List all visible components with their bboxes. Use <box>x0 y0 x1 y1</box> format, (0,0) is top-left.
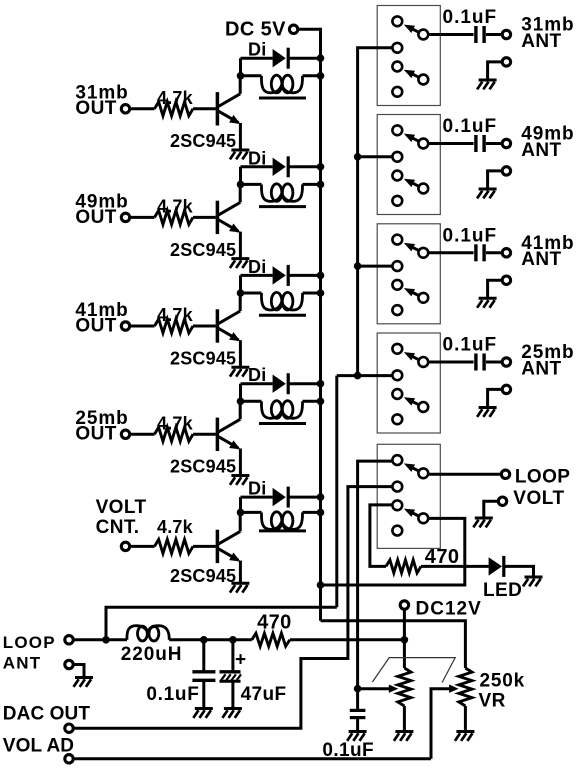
wire collector node to diode stage 4 <box>241 384 273 402</box>
relay coil RY3 <box>241 292 321 315</box>
svg-text:Di: Di <box>248 40 266 60</box>
relay coil RY4 <box>241 401 321 424</box>
terminal VOLT <box>498 497 506 505</box>
label 41mb ANT <box>521 233 574 270</box>
terminal DC5V <box>289 25 297 33</box>
resistor 470 (LED) <box>386 546 459 573</box>
wire rail to RY2 c3 <box>358 155 393 158</box>
node collector stage 5 <box>237 509 245 517</box>
svg-text:2SC945: 2SC945 <box>170 348 236 368</box>
junction coil-rail stage 5 <box>317 509 325 517</box>
label VOL AD <box>3 735 74 756</box>
relay RY4 contact circles <box>392 344 428 424</box>
wire collector node to diode stage 2 <box>241 167 273 185</box>
node collector stage 3 <box>237 289 245 297</box>
wire VR1 wiper arrow <box>358 685 399 693</box>
wire RY4 c3 jog <box>337 374 393 377</box>
wire DC12V down to VR1 <box>403 609 406 668</box>
svg-text:250k: 250k <box>480 670 525 691</box>
terminal LOOP ANT <box>65 636 73 644</box>
junction coil-rail stage 2 <box>317 181 325 189</box>
svg-text:2SC945: 2SC945 <box>170 131 236 151</box>
wire resistor to base Q5 <box>193 545 216 548</box>
svg-text:4.7k: 4.7k <box>157 305 194 325</box>
wire RY3 c2 to capacitor <box>428 251 474 254</box>
svg-text:LED: LED <box>483 580 522 601</box>
svg-text:OUT: OUT <box>75 207 116 228</box>
wire resistor 470 to DC12V node <box>290 638 405 641</box>
svg-text:ANT: ANT <box>521 140 561 161</box>
wire RY5 c4 to resistor 470 <box>370 505 393 567</box>
svg-text:+: + <box>235 649 247 670</box>
svg-text:4.7k: 4.7k <box>157 196 194 216</box>
wire capacitor to 49mb ANT terminal <box>486 142 502 145</box>
capacitor 0.1uF (loop filter) <box>146 640 215 708</box>
potentiometer VR2 250k <box>459 668 472 731</box>
svg-text:OUT: OUT <box>75 98 116 119</box>
wire commons down to loop line <box>335 376 338 608</box>
relay RY5 contact circles <box>392 455 428 535</box>
diode Di2 <box>248 148 288 177</box>
terminal 31mb ANT <box>502 30 510 38</box>
terminal ANT ground 2 <box>502 167 510 175</box>
wire diode to rail stage 3 <box>287 274 321 277</box>
junction commons RY2 <box>354 153 362 161</box>
svg-text:OUT: OUT <box>75 315 116 336</box>
node collector stage 1 <box>237 72 245 80</box>
svg-text:LOOP: LOOP <box>515 467 570 488</box>
ground ANT 1 <box>477 80 497 89</box>
relay contact box RY2 <box>377 115 440 215</box>
svg-text:0.1uF: 0.1uF <box>443 7 498 28</box>
ground ANT 2 <box>477 189 497 198</box>
terminal input stage 4 <box>121 430 129 438</box>
diode Di1 <box>248 40 288 69</box>
wire loop riser to commons <box>106 607 337 640</box>
wire VOL AD line <box>73 757 431 760</box>
svg-text:OUT: OUT <box>75 424 116 445</box>
transistor Q5 2SC945 <box>170 512 240 586</box>
label VOLT CNT. (stage 5 input) <box>96 497 147 538</box>
terminal DAC OUT <box>65 724 73 732</box>
relay coil RY1 <box>241 75 321 98</box>
junction diode-rail stage 5 <box>317 493 325 501</box>
junction commons RY3 <box>354 262 362 270</box>
junction diode-rail stage 3 <box>317 272 325 280</box>
junction loop riser <box>102 636 110 644</box>
transistor Q4 2SC945 <box>170 401 240 476</box>
transistor Q3 2SC945 <box>170 293 240 368</box>
ground ANT 4 <box>477 408 497 417</box>
wire DC5V rail vertical <box>319 28 322 621</box>
relay RY1 contact circles <box>392 16 428 96</box>
ground VOLT <box>473 518 493 527</box>
relay contact box RY3 <box>377 224 440 324</box>
wire RY5 c5 to rail <box>321 518 465 585</box>
junction commons RY4 <box>354 372 362 380</box>
relay contact box RY5 <box>377 444 440 548</box>
wire input to resistor stage 5 <box>130 545 155 548</box>
svg-text:Di: Di <box>248 479 266 499</box>
capacitor 0.1uF C2 <box>443 116 498 152</box>
junction c5-rail <box>317 581 325 589</box>
wire capacitor to 41mb ANT terminal <box>486 251 502 254</box>
LED D6 <box>483 556 522 601</box>
ground 47uF <box>222 709 242 718</box>
node collector stage 4 <box>237 398 245 406</box>
wire diode to rail stage 2 <box>287 165 321 168</box>
junction diode-rail stage 2 <box>317 163 325 171</box>
relay coil RY5 <box>241 512 321 531</box>
ground VR1 <box>394 732 414 741</box>
resistor 4.7k R2 <box>155 196 194 224</box>
junction coil-rail stage 3 <box>317 289 325 297</box>
ground LED <box>523 577 543 586</box>
wire ANT ground terminal 4 <box>488 389 503 407</box>
wire RY5 c1 to wiper line <box>358 461 393 689</box>
ground ANT left <box>74 678 94 687</box>
wire DC5V to rail <box>298 28 321 31</box>
label 25mb OUT (stage 4 input) <box>75 408 128 445</box>
diode Di5 <box>248 479 288 508</box>
relay contact box RY1 <box>377 6 440 106</box>
ground emitter Q3 <box>230 367 250 376</box>
svg-text:DC 5V: DC 5V <box>225 19 286 41</box>
wire input to resistor stage 1 <box>130 107 155 110</box>
wire collector node to diode stage 3 <box>241 275 273 293</box>
wire VOLT terminal to ground <box>484 501 499 518</box>
terminal LOOP <box>501 470 509 478</box>
label VOLT <box>513 488 564 509</box>
junction wiper/cap node <box>354 685 362 693</box>
transistor Q1 2SC945 <box>170 76 240 151</box>
relay coil RY2 <box>241 184 321 207</box>
wire resistor to base Q1 <box>193 107 216 110</box>
svg-text:Di: Di <box>248 257 266 277</box>
svg-text:0.1uF: 0.1uF <box>443 225 498 246</box>
wire RY2 c2 to capacitor <box>428 142 474 145</box>
capacitor 47uF electrolytic <box>220 640 287 708</box>
resistor 4.7k R3 <box>155 305 194 333</box>
terminal VOL AD <box>65 755 73 763</box>
inductor 220uH <box>121 626 183 665</box>
node collector stage 2 <box>237 181 245 189</box>
terminal ANT ground 4 <box>502 385 510 393</box>
svg-text:DAC OUT: DAC OUT <box>3 704 91 725</box>
capacitor 0.1uF C4 <box>443 335 498 371</box>
wire input to resistor stage 2 <box>130 216 155 219</box>
wire ANT ground terminal 1 <box>488 62 503 80</box>
label 49mb OUT (stage 2 input) <box>75 191 128 228</box>
svg-text:DC12V: DC12V <box>416 599 482 620</box>
wire resistor to base Q3 <box>193 325 216 328</box>
label LOOP <box>515 467 570 488</box>
wire LOOP terminal to inductor <box>73 638 127 641</box>
potentiometer VR1 <box>398 668 411 731</box>
ground emitter Q4 <box>230 476 250 485</box>
terminal 41mb ANT <box>502 249 510 257</box>
relay RY3 moving contact arrows <box>404 243 418 297</box>
ground 0.1uF wiper <box>347 732 367 741</box>
terminal ANT ground 3 <box>502 276 510 284</box>
wire input to resistor stage 3 <box>130 325 155 328</box>
label DC12V <box>416 599 482 620</box>
svg-text:CNT.: CNT. <box>96 517 140 538</box>
junction 0.1uF tap <box>200 636 208 644</box>
junction coil-rail stage 4 <box>317 398 325 406</box>
terminal ANT ground 1 <box>502 58 510 66</box>
svg-text:47uF: 47uF <box>241 684 287 705</box>
resistor 470 (loop) <box>252 612 292 647</box>
label DAC OUT <box>3 704 91 725</box>
terminal 49mb ANT <box>502 139 510 147</box>
terminal input stage 5 <box>121 542 129 550</box>
gang link VR1-VR2 <box>372 658 455 683</box>
svg-text:0.1uF: 0.1uF <box>443 116 498 137</box>
junction DC12V node <box>401 636 409 644</box>
wire capacitor to 31mb ANT terminal <box>486 33 502 36</box>
svg-text:ANT: ANT <box>521 358 561 379</box>
label LOOP ANT <box>3 633 56 672</box>
diode Di4 <box>248 365 288 394</box>
ground emitter Q2 <box>230 259 250 268</box>
svg-text:ANT: ANT <box>521 31 561 52</box>
svg-text:0.1uF: 0.1uF <box>443 335 498 356</box>
ground ANT 3 <box>477 298 497 307</box>
svg-text:Di: Di <box>248 365 266 385</box>
relay RY5 moving contact arrows <box>404 463 418 517</box>
label 31mb OUT (stage 1 input) <box>75 83 128 120</box>
capacitor 0.1uF C1 <box>443 7 498 43</box>
wire diode to rail stage 1 <box>287 57 321 60</box>
svg-text:VOL AD: VOL AD <box>3 735 74 756</box>
wire RY5 c2 to LOOP terminal <box>428 473 502 476</box>
svg-text:VOLT: VOLT <box>513 488 564 509</box>
svg-text:VR: VR <box>479 690 506 711</box>
svg-text:0.1uF: 0.1uF <box>146 684 199 705</box>
ground emitter Q5 <box>230 583 250 592</box>
svg-text:2SC945: 2SC945 <box>170 566 236 586</box>
svg-text:4.7k: 4.7k <box>157 413 194 433</box>
svg-text:ANT: ANT <box>521 249 561 270</box>
relay RY2 moving contact arrows <box>404 134 418 188</box>
transistor Q2 2SC945 <box>170 184 240 259</box>
terminal input stage 1 <box>121 105 129 113</box>
ground VR2 <box>455 732 475 741</box>
wire capacitor to 25mb ANT terminal <box>486 361 502 364</box>
resistor 4.7k R5 <box>155 517 194 553</box>
svg-text:ANT: ANT <box>3 654 42 673</box>
label 250k VR <box>479 670 525 711</box>
terminal input stage 3 <box>121 322 129 330</box>
wire diode to rail stage 4 <box>287 382 321 385</box>
label 25mb ANT <box>521 342 574 379</box>
wire RY1 c2 to capacitor <box>428 33 474 36</box>
terminal ANT ground (left) <box>65 660 73 668</box>
wire resistor to LED <box>421 565 489 568</box>
label 31mb ANT <box>521 15 574 52</box>
wire LED to ground <box>504 566 534 577</box>
wire resistor to base Q4 <box>193 433 216 436</box>
junction 47uF tap <box>229 636 237 644</box>
wire input to resistor stage 4 <box>130 433 155 436</box>
wire ANT terminal to ground <box>73 665 84 678</box>
junction diode-rail stage 4 <box>317 380 325 388</box>
relay RY4 moving contact arrows <box>404 352 418 406</box>
ground emitter Q1 <box>230 150 250 159</box>
wire rail to 250k VR top <box>321 621 466 668</box>
svg-text:LOOP: LOOP <box>3 633 56 652</box>
relay RY1 moving contact arrows <box>404 25 418 79</box>
ground 0.1uF loop <box>193 709 213 718</box>
relay contact box RY4 <box>377 333 440 433</box>
junction diode-rail stage 1 <box>317 54 325 62</box>
relay RY3 contact circles <box>392 235 428 315</box>
wire VOL AD riser to VR2 wiper <box>431 685 459 759</box>
wire collector node to diode stage 5 <box>241 497 273 512</box>
wire RY4 c2 to capacitor <box>428 361 474 364</box>
wire rail to RY3 c3 <box>358 265 393 268</box>
svg-text:470: 470 <box>425 546 460 568</box>
label DC 5V <box>225 19 286 41</box>
wire relay commons rail <box>358 48 393 376</box>
svg-text:2SC945: 2SC945 <box>170 457 236 477</box>
terminal input stage 2 <box>121 213 129 221</box>
svg-text:4.7k: 4.7k <box>157 88 194 108</box>
wire resistor to base Q2 <box>193 216 216 219</box>
resistor 4.7k R4 <box>155 413 194 441</box>
diode Di3 <box>248 257 288 286</box>
svg-text:470: 470 <box>257 612 292 634</box>
junction coil-rail stage 1 <box>317 72 325 80</box>
label 41mb OUT (stage 3 input) <box>75 300 128 337</box>
svg-text:2SC945: 2SC945 <box>170 240 236 260</box>
capacitor 0.1uF C3 <box>443 225 498 261</box>
wire inductor to resistor 470 <box>169 638 252 641</box>
resistor 4.7k R1 <box>155 88 194 116</box>
relay RY2 contact circles <box>392 125 428 205</box>
wire diode to rail stage 5 <box>287 496 321 499</box>
svg-text:Di: Di <box>248 148 266 168</box>
wire ANT ground terminal 2 <box>488 171 503 189</box>
capacitor 0.1uF (wiper) <box>322 689 374 761</box>
svg-text:220uH: 220uH <box>121 644 183 665</box>
label 49mb ANT <box>521 124 574 161</box>
terminal 25mb ANT <box>502 358 510 366</box>
wire RY5 c3 to DAC OUT <box>73 487 392 729</box>
wire ANT ground terminal 3 <box>488 280 503 298</box>
terminal DC12V <box>400 601 408 609</box>
svg-text:4.7k: 4.7k <box>157 517 194 537</box>
svg-text:VOLT: VOLT <box>96 497 147 518</box>
wire collector node to diode stage 1 <box>241 58 273 76</box>
